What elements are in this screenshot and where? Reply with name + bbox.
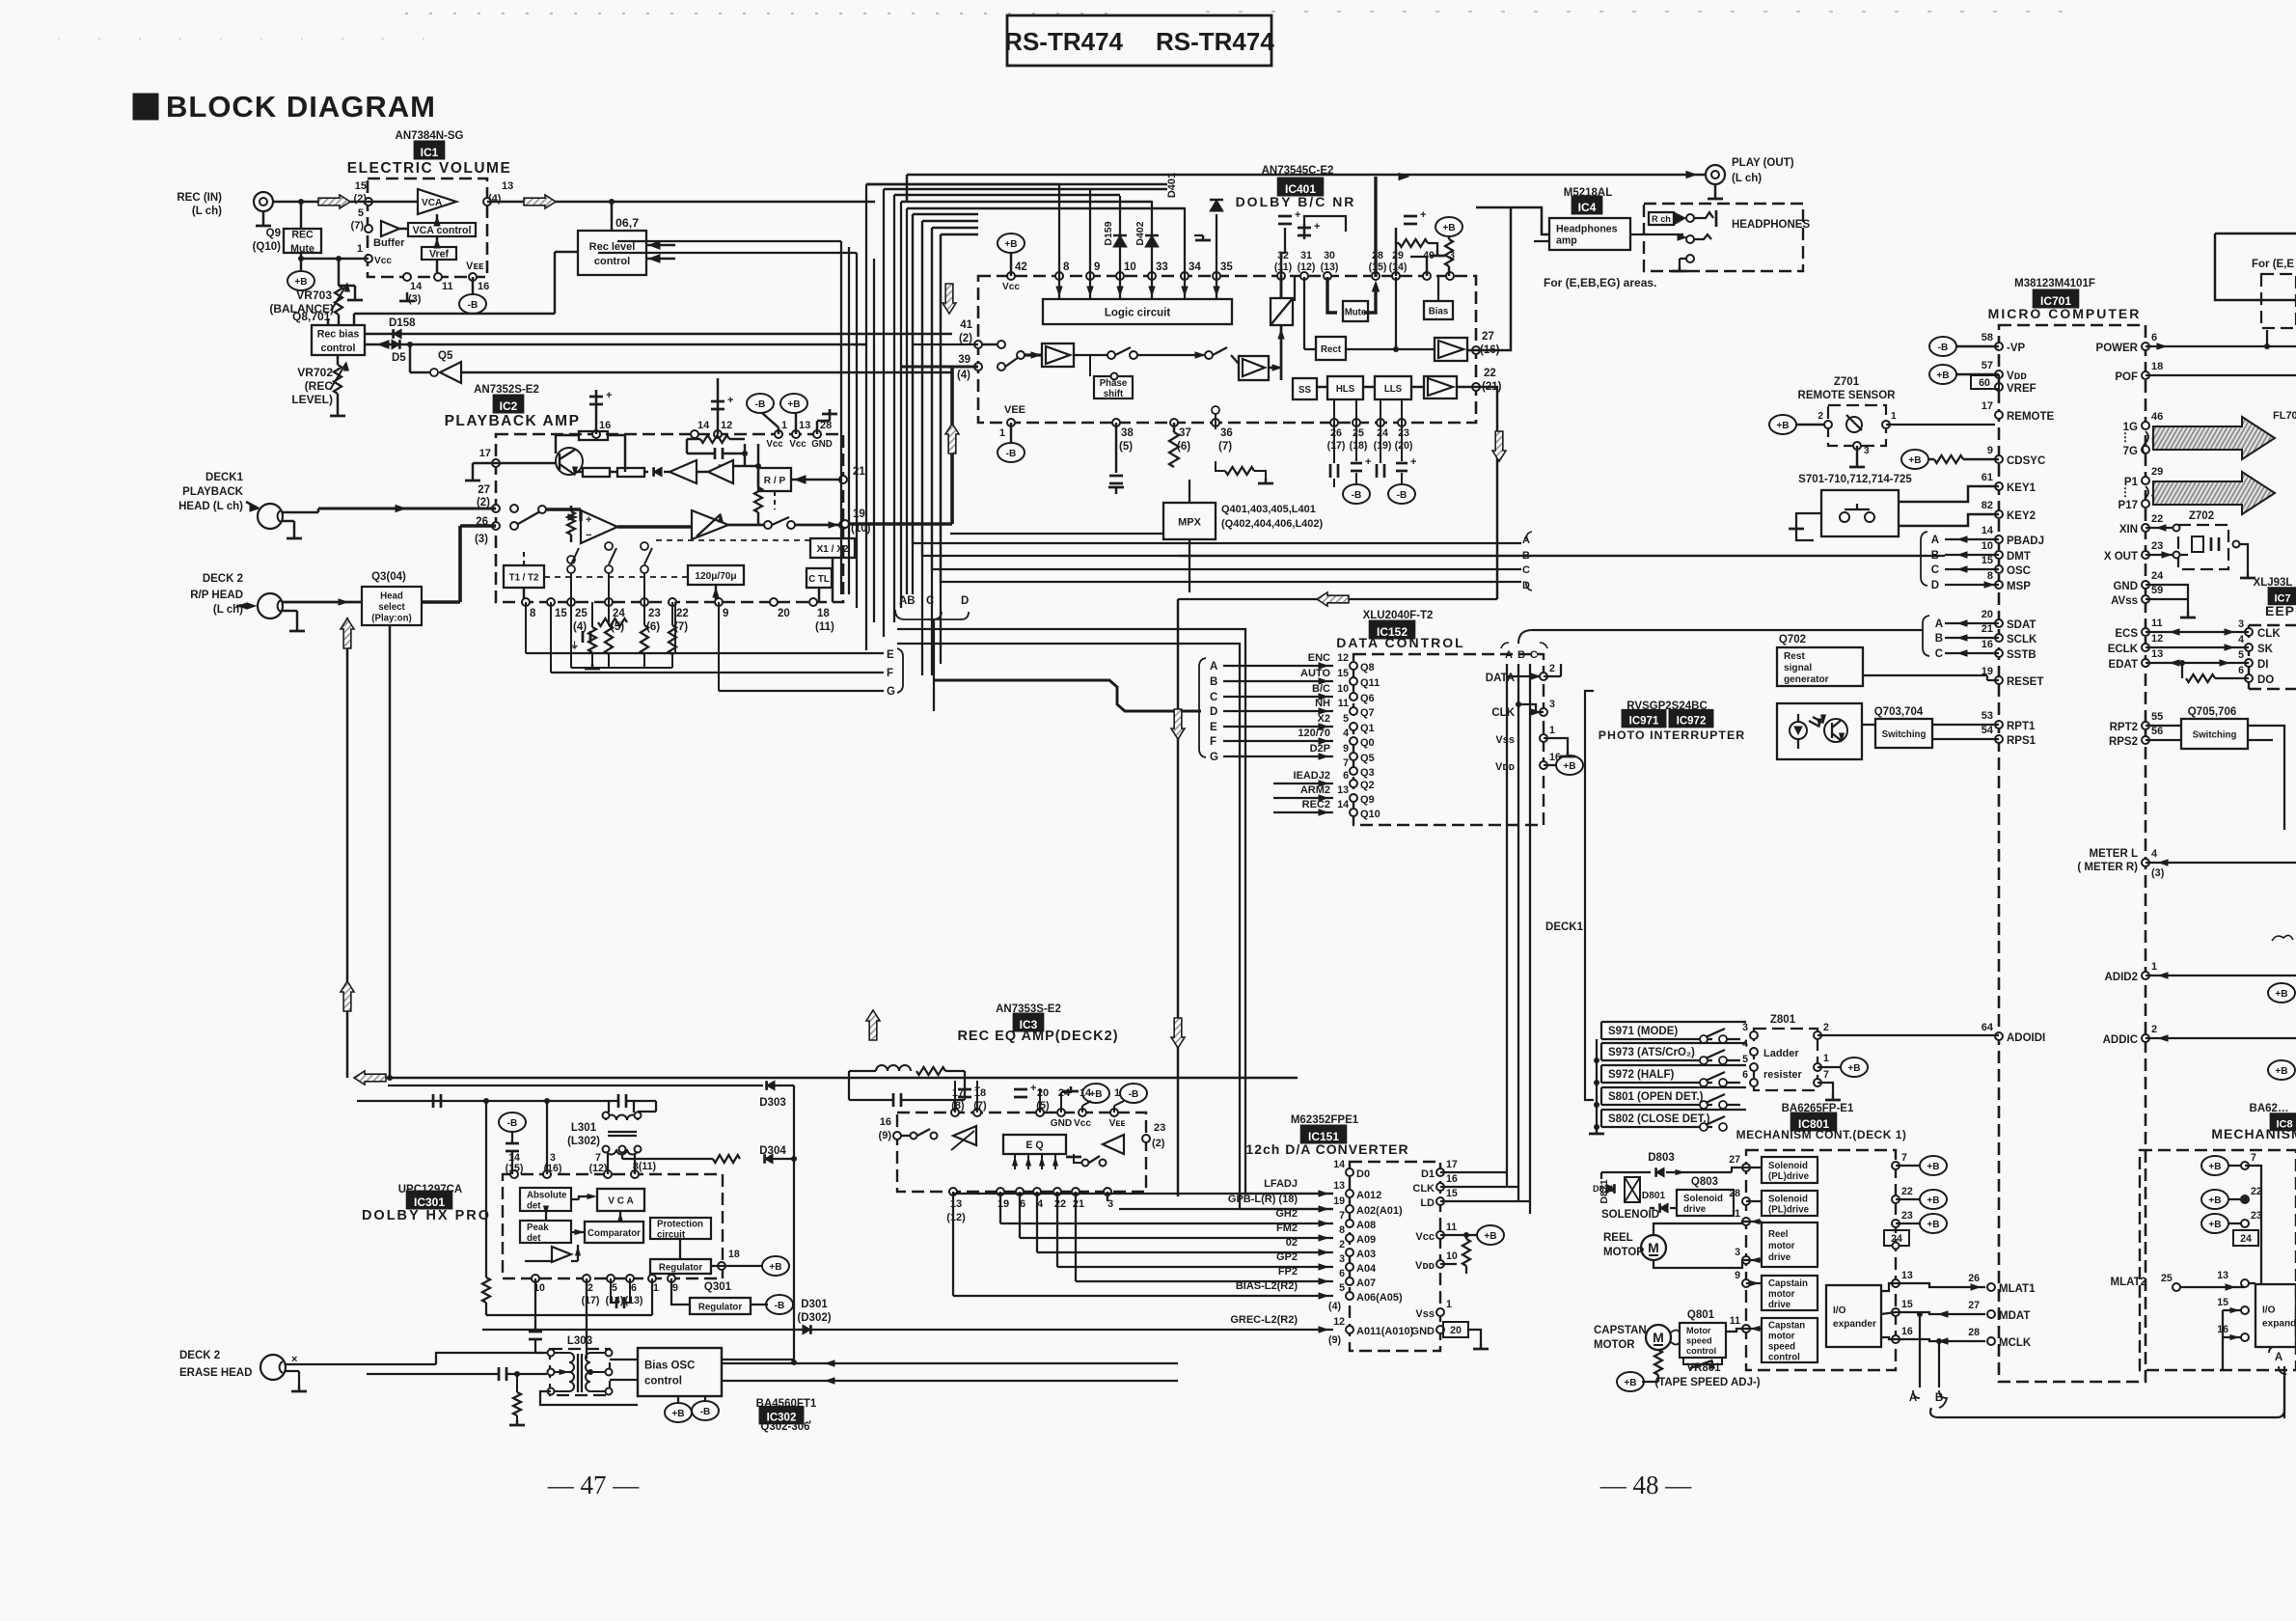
svg-text:A: A bbox=[1931, 535, 1939, 546]
svg-text:M: M bbox=[1648, 1240, 1659, 1255]
svg-text:Q9: Q9 bbox=[266, 228, 281, 239]
svg-text:5: 5 bbox=[2238, 649, 2244, 661]
svg-text:S971 (MODE): S971 (MODE) bbox=[1608, 1026, 1678, 1037]
svg-text:18: 18 bbox=[2151, 361, 2163, 372]
svg-text:12: 12 bbox=[1333, 1316, 1345, 1328]
svg-text:(7): (7) bbox=[351, 220, 365, 232]
svg-text:CAPSTAN: CAPSTAN bbox=[1594, 1325, 1647, 1336]
svg-text:(Play:on): (Play:on) bbox=[371, 613, 411, 623]
svg-text:21: 21 bbox=[1982, 623, 1993, 635]
svg-text:4: 4 bbox=[1742, 1038, 1748, 1050]
svg-text:RPT2: RPT2 bbox=[2110, 722, 2138, 733]
svg-text:Q401,403,405,L401: Q401,403,405,L401 bbox=[1221, 504, 1316, 515]
svg-text:5: 5 bbox=[358, 207, 364, 219]
svg-text:23: 23 bbox=[1901, 1210, 1913, 1222]
svg-text:+B: +B bbox=[2208, 1162, 2221, 1172]
svg-text:expander: expander bbox=[1833, 1319, 1876, 1330]
svg-text:6: 6 bbox=[631, 1282, 637, 1294]
svg-text:12ch D/A CONVERTER: 12ch D/A CONVERTER bbox=[1245, 1141, 1408, 1157]
svg-text:(L302): (L302) bbox=[567, 1136, 600, 1147]
svg-text:-B: -B bbox=[1397, 490, 1408, 501]
svg-text:ADDIC: ADDIC bbox=[2103, 1034, 2138, 1046]
svg-text:16: 16 bbox=[478, 281, 489, 292]
svg-text:— 47 —: — 47 — bbox=[547, 1470, 641, 1499]
svg-text:(8): (8) bbox=[951, 1100, 965, 1112]
svg-text:11: 11 bbox=[1338, 698, 1349, 709]
svg-text:Q6: Q6 bbox=[1360, 693, 1375, 704]
svg-text:13: 13 bbox=[2217, 1270, 2228, 1281]
svg-text:R ch: R ch bbox=[1652, 214, 1671, 224]
svg-text:3: 3 bbox=[1864, 446, 1870, 456]
svg-text:+B: +B bbox=[1927, 1162, 1939, 1172]
svg-text:I/O: I/O bbox=[1833, 1305, 1846, 1316]
svg-text:(PL)drive: (PL)drive bbox=[1768, 1171, 1810, 1182]
svg-text:Protection: Protection bbox=[657, 1219, 703, 1229]
svg-text:12: 12 bbox=[1337, 652, 1349, 664]
svg-text:KEY1: KEY1 bbox=[2007, 482, 2036, 494]
svg-text:RS-TR474: RS-TR474 bbox=[1156, 27, 1274, 56]
svg-text:22: 22 bbox=[676, 608, 689, 619]
svg-text:Vcc: Vcc bbox=[1002, 282, 1020, 292]
svg-text:C: C bbox=[1935, 648, 1943, 660]
svg-text:1: 1 bbox=[1446, 1299, 1452, 1310]
svg-text:S701-710,712,714-725: S701-710,712,714-725 bbox=[1798, 474, 1912, 485]
svg-text:22: 22 bbox=[2151, 513, 2163, 525]
svg-text:120/70: 120/70 bbox=[1298, 728, 1330, 739]
svg-text:Q703,704: Q703,704 bbox=[1874, 706, 1924, 718]
svg-text:select: select bbox=[378, 602, 405, 613]
svg-text:10: 10 bbox=[1337, 683, 1349, 695]
svg-text:VEE: VEE bbox=[1004, 404, 1025, 416]
svg-text:11: 11 bbox=[1446, 1222, 1457, 1233]
svg-text:AN73545C-E2: AN73545C-E2 bbox=[1262, 165, 1334, 177]
svg-text:13: 13 bbox=[1901, 1270, 1913, 1281]
svg-text:17: 17 bbox=[1446, 1159, 1458, 1170]
svg-text:S972 (HALF): S972 (HALF) bbox=[1608, 1069, 1675, 1081]
svg-text:11: 11 bbox=[2151, 618, 2163, 629]
svg-text:36: 36 bbox=[1220, 427, 1233, 439]
svg-text:I/O: I/O bbox=[2262, 1305, 2276, 1315]
svg-text:31: 31 bbox=[1300, 250, 1312, 261]
svg-text:DI: DI bbox=[2257, 659, 2269, 671]
svg-text:23: 23 bbox=[2151, 540, 2163, 552]
svg-text:D402: D402 bbox=[1134, 221, 1146, 245]
svg-text:SSTB: SSTB bbox=[2007, 649, 2036, 661]
svg-text:22: 22 bbox=[1054, 1198, 1066, 1210]
svg-text:Q2: Q2 bbox=[1360, 780, 1375, 791]
svg-text:6: 6 bbox=[2238, 665, 2244, 676]
svg-text:circuit: circuit bbox=[657, 1229, 686, 1240]
svg-text:B: B bbox=[1210, 676, 1217, 688]
svg-text:57: 57 bbox=[1982, 360, 1993, 371]
svg-text:D301: D301 bbox=[801, 1299, 828, 1310]
svg-text:Peak: Peak bbox=[527, 1223, 549, 1233]
svg-text:+: + bbox=[586, 514, 591, 526]
svg-text:8: 8 bbox=[530, 608, 536, 619]
svg-text:L303: L303 bbox=[567, 1335, 592, 1347]
svg-text:VCA control: VCA control bbox=[413, 225, 472, 236]
svg-text:speed: speed bbox=[1686, 1336, 1712, 1346]
svg-text:C: C bbox=[1530, 649, 1538, 661]
svg-text:control: control bbox=[1768, 1352, 1800, 1362]
svg-text:(3): (3) bbox=[475, 534, 488, 545]
svg-text:Logic circuit: Logic circuit bbox=[1105, 308, 1171, 319]
svg-text:11: 11 bbox=[1730, 1315, 1740, 1327]
svg-text:15: 15 bbox=[2217, 1297, 2228, 1308]
svg-text:7: 7 bbox=[1343, 757, 1349, 769]
svg-text:60: 60 bbox=[1979, 377, 1990, 389]
svg-text:S973 (ATS/CrO₂): S973 (ATS/CrO₂) bbox=[1608, 1047, 1695, 1058]
svg-text:MICRO COMPUTER: MICRO COMPUTER bbox=[1988, 306, 2142, 321]
svg-text:-VP: -VP bbox=[2007, 343, 2026, 354]
svg-text:16: 16 bbox=[599, 420, 611, 431]
svg-text:(18): (18) bbox=[1350, 440, 1368, 452]
svg-text:Q801: Q801 bbox=[1687, 1309, 1715, 1321]
svg-text:25: 25 bbox=[2161, 1273, 2173, 1284]
svg-text:Vcc: Vcc bbox=[1415, 1231, 1435, 1243]
svg-text:(3): (3) bbox=[2151, 867, 2165, 879]
svg-text:(L ch): (L ch) bbox=[1732, 173, 1762, 184]
svg-text:Q803: Q803 bbox=[1691, 1176, 1718, 1188]
svg-text:+B: +B bbox=[1484, 1231, 1496, 1242]
svg-text:58: 58 bbox=[1982, 332, 1993, 343]
svg-text:amp: amp bbox=[1556, 235, 1577, 247]
svg-text:+B: +B bbox=[2275, 989, 2287, 1000]
svg-text:(3): (3) bbox=[408, 293, 422, 305]
svg-text:46: 46 bbox=[2151, 411, 2163, 423]
svg-text:⋮: ⋮ bbox=[2119, 430, 2131, 444]
svg-text:(13): (13) bbox=[1321, 261, 1339, 273]
svg-text:resister: resister bbox=[1763, 1069, 1802, 1081]
svg-text:+B: +B bbox=[1442, 223, 1455, 234]
svg-text:2: 2 bbox=[588, 1282, 593, 1294]
svg-text:Rest: Rest bbox=[1784, 651, 1806, 662]
svg-text:MLAT1: MLAT1 bbox=[1999, 1283, 2036, 1295]
svg-text:6: 6 bbox=[1339, 1268, 1345, 1279]
svg-text:(Q402,404,406,L402): (Q402,404,406,L402) bbox=[1221, 518, 1324, 530]
svg-text:(TAPE SPEED ADJ-): (TAPE SPEED ADJ-) bbox=[1654, 1377, 1760, 1388]
svg-text:+B: +B bbox=[1004, 239, 1017, 250]
svg-text:(12): (12) bbox=[1298, 261, 1316, 273]
svg-text:MDAT: MDAT bbox=[1999, 1310, 2030, 1322]
svg-text:+: + bbox=[1410, 456, 1416, 468]
svg-text:4: 4 bbox=[2151, 848, 2158, 860]
svg-text:+: + bbox=[1420, 209, 1426, 221]
svg-text:ARM2: ARM2 bbox=[1300, 784, 1330, 796]
svg-text:7G: 7G bbox=[2123, 446, 2138, 457]
svg-text:(7): (7) bbox=[973, 1100, 987, 1112]
svg-text:Q8,701: Q8,701 bbox=[292, 310, 331, 323]
svg-text:+: + bbox=[727, 395, 733, 406]
svg-text:GND: GND bbox=[811, 439, 833, 450]
svg-text:Solenoid: Solenoid bbox=[1768, 1161, 1808, 1171]
svg-text:13: 13 bbox=[1337, 784, 1349, 796]
svg-text:14: 14 bbox=[1333, 1159, 1345, 1170]
svg-text:9: 9 bbox=[723, 608, 728, 619]
svg-text:12: 12 bbox=[721, 420, 732, 431]
svg-text:GPB-L(R) (18): GPB-L(R) (18) bbox=[1228, 1194, 1298, 1205]
svg-text:(L ch): (L ch) bbox=[192, 206, 222, 217]
svg-text:Q3(04): Q3(04) bbox=[371, 571, 406, 583]
svg-text:POF: POF bbox=[2115, 371, 2138, 383]
svg-text:A: A bbox=[2275, 1352, 2282, 1363]
svg-text:VREF: VREF bbox=[2007, 383, 2036, 395]
svg-text:PLAYBACK AMP: PLAYBACK AMP bbox=[445, 413, 581, 429]
svg-text:Vcc: Vcc bbox=[789, 439, 806, 450]
svg-text:Vcc: Vcc bbox=[374, 256, 392, 266]
svg-text:motor: motor bbox=[1768, 1289, 1795, 1300]
svg-text:det: det bbox=[527, 1233, 541, 1244]
svg-text:G: G bbox=[1210, 752, 1218, 763]
svg-text:GND: GND bbox=[1051, 1118, 1072, 1129]
svg-text:Vᴅᴅ: Vᴅᴅ bbox=[1415, 1260, 1435, 1272]
svg-text:8: 8 bbox=[1063, 261, 1070, 273]
svg-text:RPS1: RPS1 bbox=[2007, 735, 2036, 747]
svg-text:A09: A09 bbox=[1356, 1234, 1376, 1246]
svg-text:-B: -B bbox=[700, 1407, 711, 1417]
svg-text:E Q: E Q bbox=[1025, 1140, 1043, 1151]
svg-text:HEADPHONES: HEADPHONES bbox=[1732, 219, 1810, 231]
svg-text:DECK1: DECK1 bbox=[1545, 921, 1584, 933]
svg-text:M: M bbox=[1653, 1330, 1664, 1345]
svg-text:(9): (9) bbox=[1328, 1334, 1341, 1346]
svg-text:AN7352S-E2: AN7352S-E2 bbox=[474, 384, 539, 396]
svg-text:Mute: Mute bbox=[290, 243, 314, 255]
svg-text:23: 23 bbox=[1398, 427, 1409, 439]
svg-text:(12): (12) bbox=[946, 1212, 966, 1223]
svg-text:DATA CONTROL: DATA CONTROL bbox=[1336, 635, 1464, 650]
svg-text:XLJ93L: XLJ93L bbox=[2254, 577, 2293, 589]
svg-text:PBADJ: PBADJ bbox=[2007, 536, 2044, 547]
svg-text:Vref: Vref bbox=[429, 249, 449, 261]
svg-text:Q11: Q11 bbox=[1360, 677, 1380, 689]
svg-text:A06(A05): A06(A05) bbox=[1356, 1292, 1403, 1304]
svg-text:BA62…: BA62… bbox=[2250, 1103, 2289, 1114]
svg-text:Buffer: Buffer bbox=[373, 237, 405, 249]
svg-text:(REC: (REC bbox=[305, 379, 334, 393]
svg-text:GND: GND bbox=[1411, 1326, 1435, 1337]
svg-text:HEAD (L ch): HEAD (L ch) bbox=[178, 501, 243, 512]
svg-text:Comparator: Comparator bbox=[588, 1228, 641, 1239]
svg-text:3: 3 bbox=[2238, 618, 2244, 630]
svg-text:7: 7 bbox=[1339, 1210, 1345, 1222]
svg-text:13: 13 bbox=[2151, 648, 2163, 660]
svg-text:T1 / T2: T1 / T2 bbox=[509, 572, 539, 583]
svg-text:⏚: ⏚ bbox=[570, 641, 579, 650]
svg-text:20: 20 bbox=[1037, 1087, 1049, 1099]
svg-text:16: 16 bbox=[880, 1116, 891, 1128]
svg-text:DATA: DATA bbox=[1486, 673, 1515, 684]
svg-text:15: 15 bbox=[1982, 555, 1993, 566]
svg-text:27: 27 bbox=[1968, 1300, 1980, 1311]
svg-text:PLAY (OUT): PLAY (OUT) bbox=[1732, 157, 1794, 169]
svg-text:10: 10 bbox=[1124, 261, 1136, 273]
svg-text:15: 15 bbox=[1337, 668, 1349, 679]
svg-text:RPS2: RPS2 bbox=[2109, 736, 2138, 748]
svg-text:(5): (5) bbox=[1036, 1100, 1050, 1112]
svg-text:Reel: Reel bbox=[1768, 1229, 1788, 1240]
svg-text:8: 8 bbox=[1987, 570, 1993, 582]
svg-text:E: E bbox=[1210, 722, 1217, 733]
svg-text:53: 53 bbox=[1982, 710, 1993, 722]
svg-text:LFADJ: LFADJ bbox=[1264, 1178, 1298, 1190]
svg-text:56: 56 bbox=[2151, 726, 2163, 737]
svg-text:9: 9 bbox=[672, 1282, 678, 1294]
svg-text:(13): (13) bbox=[625, 1295, 643, 1306]
svg-text:23: 23 bbox=[648, 608, 661, 619]
svg-text:24: 24 bbox=[2240, 1233, 2252, 1245]
svg-text:Q702: Q702 bbox=[1779, 634, 1806, 646]
svg-text:+B: +B bbox=[1936, 371, 1949, 381]
svg-text:Q301: Q301 bbox=[704, 1281, 732, 1293]
svg-text:DMT: DMT bbox=[2007, 551, 2031, 563]
svg-text:+B: +B bbox=[2275, 1066, 2287, 1077]
svg-text:motor: motor bbox=[1768, 1241, 1795, 1251]
svg-text:X OUT: X OUT bbox=[2104, 551, 2138, 563]
svg-text:S801 (OPEN DET.): S801 (OPEN DET.) bbox=[1608, 1091, 1704, 1103]
svg-text:Q5: Q5 bbox=[1360, 753, 1375, 764]
svg-text:REC EQ AMP(DECK2): REC EQ AMP(DECK2) bbox=[957, 1029, 1118, 1044]
svg-text:23: 23 bbox=[1154, 1122, 1165, 1134]
svg-text:REC2: REC2 bbox=[1302, 799, 1330, 810]
svg-text:CLK: CLK bbox=[2257, 628, 2281, 640]
svg-text:SS: SS bbox=[1298, 385, 1311, 396]
svg-text:C: C bbox=[1210, 692, 1217, 703]
svg-text:D0: D0 bbox=[1356, 1168, 1370, 1180]
svg-text:POWER: POWER bbox=[2096, 343, 2139, 354]
svg-text:A: A bbox=[1505, 649, 1513, 661]
svg-text:Q302-306: Q302-306 bbox=[760, 1421, 809, 1433]
svg-text:(17): (17) bbox=[1327, 440, 1346, 452]
svg-text:Capstain: Capstain bbox=[1768, 1278, 1808, 1289]
svg-text:VCA: VCA bbox=[422, 198, 443, 208]
svg-text:6: 6 bbox=[1742, 1069, 1748, 1081]
svg-text:−: − bbox=[718, 460, 723, 470]
svg-text:+B: +B bbox=[1563, 761, 1575, 772]
svg-text:BLOCK DIAGRAM: BLOCK DIAGRAM bbox=[166, 90, 436, 124]
svg-text:16: 16 bbox=[1901, 1326, 1913, 1337]
svg-text:(2): (2) bbox=[1152, 1138, 1165, 1149]
svg-text:42: 42 bbox=[1015, 261, 1027, 273]
svg-text:10: 10 bbox=[1982, 540, 1993, 552]
svg-text:DO: DO bbox=[2257, 674, 2274, 686]
svg-text:28: 28 bbox=[1372, 250, 1383, 261]
svg-text:E: E bbox=[887, 649, 894, 661]
svg-text:AN7384N-SG: AN7384N-SG bbox=[396, 130, 464, 142]
svg-text:14: 14 bbox=[410, 281, 423, 292]
svg-text:A011(A010): A011(A010) bbox=[1356, 1326, 1414, 1337]
svg-text:29: 29 bbox=[2151, 466, 2163, 478]
svg-text:Headphones: Headphones bbox=[1556, 224, 1618, 235]
svg-text:9: 9 bbox=[1094, 261, 1100, 273]
svg-text:SOLENOID: SOLENOID bbox=[1601, 1209, 1659, 1221]
svg-text:Z701: Z701 bbox=[1834, 376, 1860, 388]
svg-text:-B: -B bbox=[1938, 343, 1949, 353]
svg-text:(9): (9) bbox=[879, 1130, 892, 1141]
svg-text:3: 3 bbox=[1549, 699, 1555, 710]
svg-text:DOLBY B/C NR: DOLBY B/C NR bbox=[1236, 194, 1356, 209]
svg-text:Vss: Vss bbox=[1415, 1308, 1435, 1320]
svg-text:(19): (19) bbox=[1374, 440, 1392, 452]
svg-text:S802 (CLOSE DET.): S802 (CLOSE DET.) bbox=[1608, 1113, 1710, 1125]
svg-text:XLU2040F-T2: XLU2040F-T2 bbox=[1363, 610, 1434, 621]
svg-text:Head: Head bbox=[380, 591, 403, 601]
svg-text:20: 20 bbox=[1982, 609, 1993, 620]
svg-text:29: 29 bbox=[1392, 250, 1404, 261]
svg-text:2: 2 bbox=[1823, 1022, 1829, 1033]
svg-text:28: 28 bbox=[1968, 1327, 1980, 1338]
svg-text:24: 24 bbox=[2151, 570, 2164, 582]
svg-text:Regulator: Regulator bbox=[659, 1262, 702, 1273]
svg-text:(11): (11) bbox=[815, 621, 834, 633]
svg-text:27: 27 bbox=[1482, 331, 1494, 343]
svg-text:— 48 —: — 48 — bbox=[1599, 1470, 1693, 1499]
svg-text:AUTO: AUTO bbox=[1300, 668, 1330, 679]
svg-text:(20): (20) bbox=[1395, 440, 1413, 452]
svg-text:Bias OSC: Bias OSC bbox=[644, 1360, 695, 1372]
svg-text:Switching: Switching bbox=[2193, 729, 2237, 740]
svg-text:Q9: Q9 bbox=[1360, 794, 1375, 806]
svg-text:det: det bbox=[527, 1200, 541, 1211]
svg-text:14: 14 bbox=[697, 420, 710, 431]
svg-text:9: 9 bbox=[1987, 445, 1993, 456]
svg-text:Q1: Q1 bbox=[1360, 723, 1375, 734]
svg-text:IC2: IC2 bbox=[500, 399, 518, 413]
svg-text:9: 9 bbox=[1343, 743, 1349, 755]
svg-text:CDSYC: CDSYC bbox=[2007, 455, 2045, 467]
svg-text:Rec bias: Rec bias bbox=[317, 328, 360, 340]
svg-text:D158: D158 bbox=[389, 317, 416, 329]
svg-text:17: 17 bbox=[479, 448, 491, 459]
svg-text:1: 1 bbox=[1823, 1053, 1829, 1064]
svg-text:24: 24 bbox=[1377, 427, 1388, 439]
svg-text:21: 21 bbox=[853, 466, 865, 478]
svg-text:(7): (7) bbox=[1218, 441, 1232, 453]
svg-text:32: 32 bbox=[1277, 250, 1289, 261]
svg-text:GND: GND bbox=[2113, 581, 2138, 592]
svg-text:REMOTE SENSOR: REMOTE SENSOR bbox=[1798, 390, 1897, 401]
svg-text:1: 1 bbox=[2151, 961, 2157, 973]
svg-text:Vᴇᴇ: Vᴇᴇ bbox=[466, 261, 484, 272]
svg-text:D801: D801 bbox=[1642, 1191, 1666, 1201]
svg-text:ENC: ENC bbox=[1308, 652, 1330, 664]
svg-text:34: 34 bbox=[1189, 261, 1201, 273]
svg-text:KEY2: KEY2 bbox=[2007, 510, 2036, 522]
svg-text:R / P: R / P bbox=[764, 476, 786, 486]
svg-text:(14): (14) bbox=[606, 1295, 624, 1306]
svg-text:(4): (4) bbox=[1328, 1301, 1341, 1312]
svg-text:+B: +B bbox=[769, 1262, 781, 1273]
svg-text:HLS: HLS bbox=[1336, 384, 1355, 395]
svg-text:(5): (5) bbox=[1119, 441, 1133, 453]
svg-text:IC301: IC301 bbox=[414, 1195, 445, 1209]
svg-text:R/P HEAD: R/P HEAD bbox=[190, 590, 243, 601]
svg-text:CLK: CLK bbox=[1412, 1183, 1435, 1195]
svg-text:X1 / X2: X1 / X2 bbox=[816, 544, 848, 555]
svg-text:13: 13 bbox=[799, 420, 810, 431]
svg-text:DECK 2: DECK 2 bbox=[203, 573, 243, 585]
svg-text:drive: drive bbox=[1768, 1252, 1791, 1263]
svg-text:Solenoid: Solenoid bbox=[1683, 1194, 1723, 1204]
svg-text:IEADJ2: IEADJ2 bbox=[1293, 770, 1330, 782]
svg-text:ADID2: ADID2 bbox=[2104, 972, 2138, 983]
svg-text:LEVEL): LEVEL) bbox=[291, 393, 333, 406]
svg-text:D5: D5 bbox=[392, 352, 406, 364]
svg-text:+B: +B bbox=[2208, 1195, 2221, 1206]
svg-text:20: 20 bbox=[778, 608, 790, 619]
svg-text:1: 1 bbox=[781, 420, 787, 431]
svg-text:EDAT: EDAT bbox=[2109, 659, 2138, 671]
